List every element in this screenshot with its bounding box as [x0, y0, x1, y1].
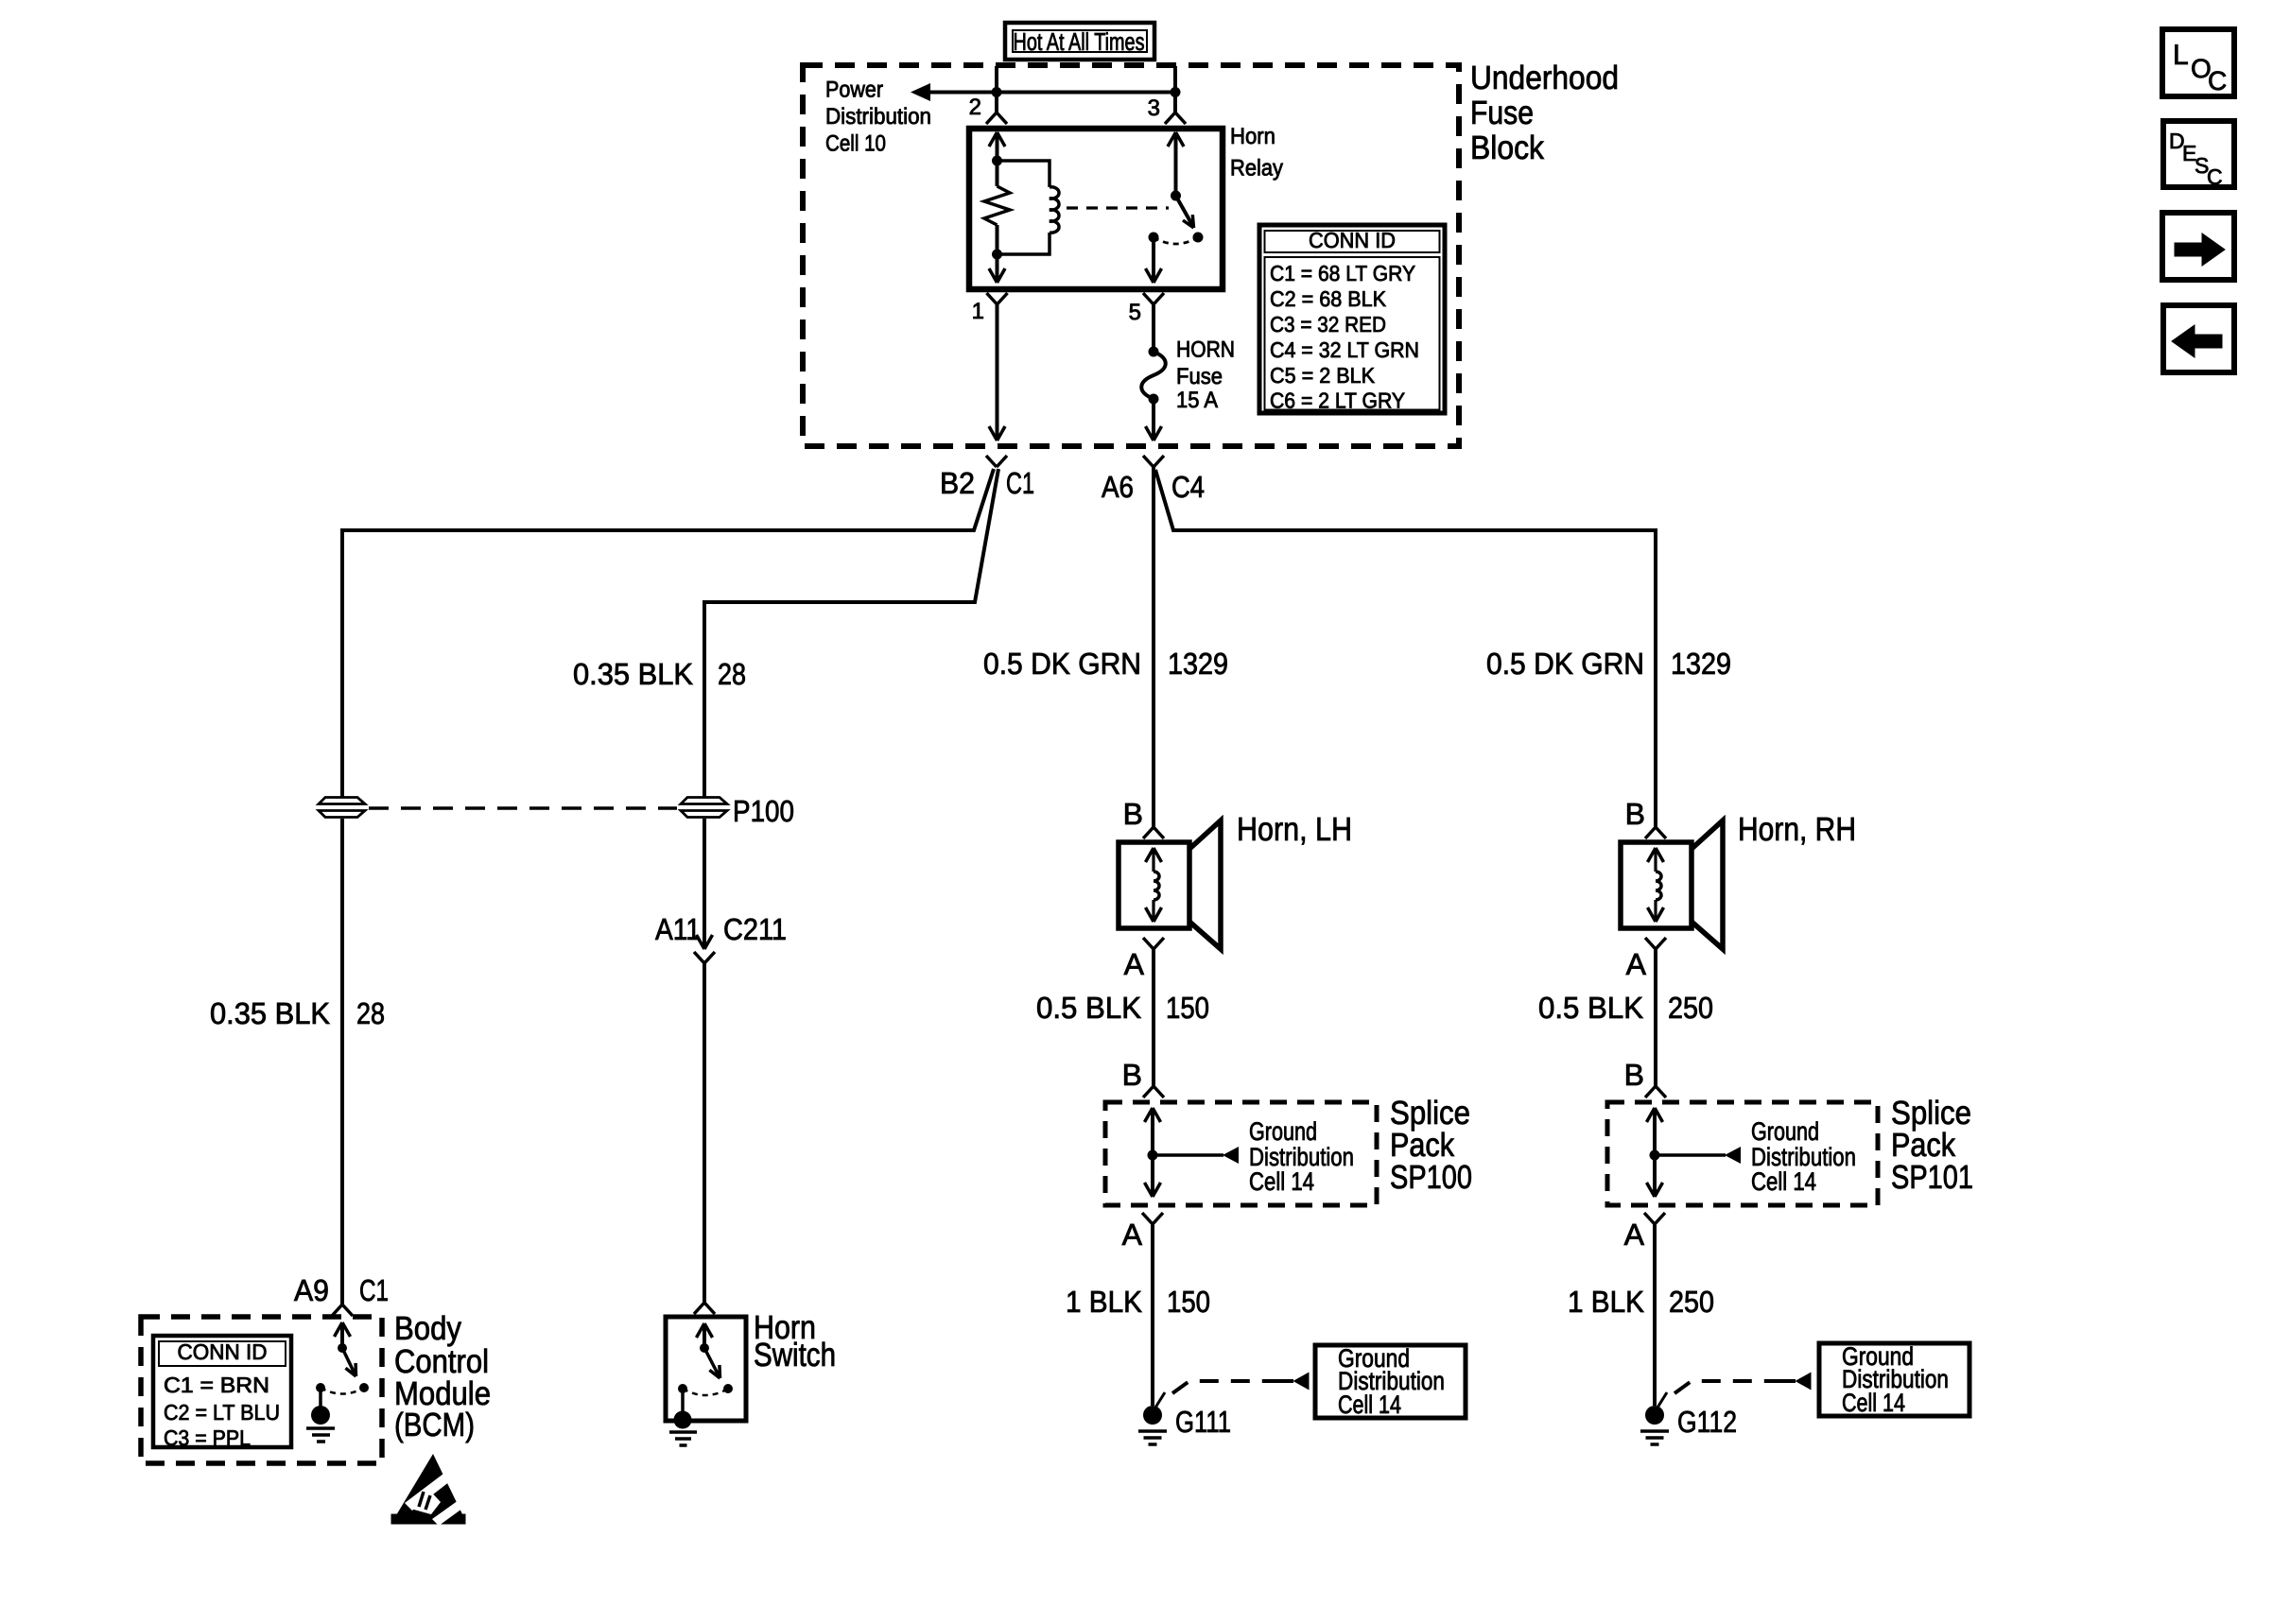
- inline connector on BCM wire (P100 pair): [321, 797, 364, 818]
- wire C211 to horn switch: [703, 963, 706, 1303]
- svg-text:Distribution: Distribution: [825, 104, 931, 130]
- splice SP100 internal wire: [1145, 1108, 1161, 1122]
- ESD sensitive device symbol: [391, 1454, 470, 1526]
- svg-text:Horn, RH: Horn, RH: [1738, 811, 1856, 848]
- svg-text:G112: G112: [1677, 1405, 1737, 1439]
- horn RH coil: [1648, 848, 1664, 862]
- horn switch fork terminal: [694, 1303, 715, 1314]
- svg-text:0.35 BLK: 0.35 BLK: [210, 996, 330, 1030]
- horn switch ground-side contact dot: [678, 1384, 687, 1393]
- svg-text:Horn, LH: Horn, LH: [1237, 811, 1352, 848]
- svg-text:5: 5: [1129, 300, 1141, 325]
- svg-text:B: B: [1123, 797, 1143, 831]
- terminal fork pin 5: [1143, 293, 1164, 304]
- CONN ID table BCM: [153, 1336, 291, 1447]
- svg-text:Switch: Switch: [754, 1337, 836, 1373]
- relay switch pivot dot: [1171, 191, 1181, 201]
- svg-text:1329: 1329: [1168, 647, 1228, 681]
- svg-text:Power: Power: [825, 78, 883, 103]
- BCM switch dashed travel arc: [321, 1388, 364, 1394]
- svg-text:28: 28: [356, 996, 385, 1030]
- splice SP101 internal wire: [1647, 1108, 1663, 1122]
- svg-text:0.35 BLK: 0.35 BLK: [573, 657, 693, 691]
- horn LH terminal fork A: [1143, 938, 1164, 949]
- svg-text:Cell 10: Cell 10: [825, 131, 886, 157]
- svg-text:0.5 BLK: 0.5 BLK: [1538, 991, 1643, 1025]
- svg-text:0.5 DK GRN: 0.5 DK GRN: [983, 647, 1141, 681]
- wire SP101 to ground G112: [1653, 1224, 1657, 1406]
- svg-text:Cell 14: Cell 14: [1751, 1167, 1816, 1196]
- svg-text:A: A: [1124, 947, 1145, 981]
- svg-text:0.5 DK GRN: 0.5 DK GRN: [1486, 647, 1644, 681]
- wire A6/C4 to Horn LH: [1152, 467, 1155, 827]
- wire horn-switch branch below connector: [703, 819, 706, 947]
- ground G111: [1143, 1406, 1162, 1425]
- svg-text:C211: C211: [723, 912, 787, 946]
- splice SP100 junction dot: [1148, 1150, 1158, 1161]
- reference box Ground Distribution Cell 14 (G111): [1315, 1345, 1466, 1418]
- svg-text:B: B: [1122, 1058, 1142, 1092]
- horn switch box: [666, 1317, 746, 1421]
- svg-text:Relay: Relay: [1230, 156, 1283, 181]
- wire B2/C1 to horn switch branch: [704, 469, 998, 797]
- wire horn RH to splice pack SP101: [1654, 949, 1657, 1086]
- ground G112: [1645, 1406, 1664, 1425]
- svg-text:C5 = 2 BLK: C5 = 2 BLK: [1270, 363, 1376, 388]
- wire fuse block feed to relay pin 2: [995, 66, 998, 112]
- wire relay pin 5 to HORN fuse: [1152, 304, 1155, 351]
- svg-text:Fuse: Fuse: [1470, 95, 1534, 131]
- svg-text:P100: P100: [733, 794, 794, 828]
- wire A6/C4 to Horn RH branch: [1155, 470, 1656, 827]
- relay coil-side wire pin 2 entering: [989, 132, 1005, 147]
- horn LH body box: [1119, 842, 1189, 928]
- svg-text:A: A: [1626, 947, 1647, 981]
- reference box Ground Distribution Cell 14 (G112): [1819, 1343, 1969, 1416]
- connector fork A6/C4: [1143, 456, 1164, 467]
- svg-text:L: L: [2173, 40, 2189, 71]
- svg-text:1 BLK: 1 BLK: [1568, 1285, 1644, 1319]
- wire BCM branch below connector: [340, 819, 344, 1304]
- svg-text:0.5 BLK: 0.5 BLK: [1036, 991, 1141, 1025]
- svg-text:HORN: HORN: [1176, 337, 1235, 363]
- svg-text:A: A: [1624, 1218, 1645, 1252]
- splice fork A (SP100): [1142, 1213, 1163, 1224]
- junction dot pin 3 wire / power feed: [1171, 87, 1181, 97]
- svg-text:150: 150: [1166, 991, 1209, 1025]
- BCM switch contact dot: [359, 1383, 369, 1392]
- wire fuse block feed to relay pin 3: [1173, 66, 1177, 112]
- horn switch ground: [674, 1411, 692, 1429]
- BCM dashed box: [141, 1317, 382, 1463]
- svg-text:Cell 14: Cell 14: [1842, 1389, 1905, 1417]
- svg-text:C: C: [2208, 66, 2227, 95]
- terminal fork pin 1: [987, 293, 1008, 304]
- horn LH speaker trapezoid: [1189, 821, 1221, 949]
- dashed link between P100 connector halves: [369, 806, 677, 810]
- BCM internal ground: [311, 1406, 330, 1425]
- svg-text:A9: A9: [294, 1273, 329, 1307]
- junction dot coil bottom: [992, 250, 1002, 260]
- relay switch arm: [1176, 196, 1193, 225]
- svg-text:CONN ID: CONN ID: [178, 1339, 268, 1364]
- wire coil to relay pin 1: [996, 254, 999, 281]
- horn switch input wire: [697, 1323, 713, 1338]
- svg-text:SP100: SP100: [1390, 1159, 1472, 1196]
- svg-text:C1 = 68 LT GRY: C1 = 68 LT GRY: [1270, 261, 1415, 285]
- svg-text:C6 = 2 LT GRY: C6 = 2 LT GRY: [1270, 389, 1405, 413]
- svg-text:G111: G111: [1175, 1405, 1231, 1439]
- svg-text:C2 = 68 BLK: C2 = 68 BLK: [1270, 286, 1387, 311]
- BCM internal ground contact dot: [316, 1383, 325, 1392]
- svg-text:A: A: [1122, 1218, 1143, 1252]
- svg-text:SP101: SP101: [1891, 1159, 1973, 1196]
- connector fork A9/C1 (BCM): [332, 1304, 353, 1316]
- relay box Horn Relay: [969, 129, 1223, 289]
- svg-text:3: 3: [1148, 95, 1160, 121]
- splice fork B (SP101): [1645, 1086, 1666, 1097]
- splice fork A (SP101): [1644, 1213, 1665, 1224]
- svg-text:C3 = 32 RED: C3 = 32 RED: [1270, 312, 1386, 337]
- svg-text:B2: B2: [940, 466, 975, 500]
- svg-text:Hot At All Times: Hot At All Times: [1014, 27, 1145, 56]
- svg-text:Body: Body: [394, 1310, 461, 1347]
- icon back arrow: [2163, 305, 2234, 372]
- relay switch common wire pin 3: [1168, 132, 1184, 147]
- resistor (relay suppression): [996, 161, 999, 186]
- svg-text:2: 2: [969, 95, 981, 120]
- horn switch arm: [704, 1348, 719, 1375]
- splice SP101 ground distribution stub: [1655, 1153, 1726, 1157]
- terminal fork pin 3: [1165, 112, 1186, 124]
- svg-text:C4: C4: [1171, 470, 1205, 504]
- svg-text:Fuse: Fuse: [1176, 364, 1223, 389]
- wire horn LH to splice pack SP100: [1152, 949, 1155, 1086]
- wire B2/C1 to BCM branch (left horizontal): [342, 469, 994, 797]
- svg-text:(BCM): (BCM): [394, 1407, 475, 1443]
- wire SP100 to ground G111: [1151, 1224, 1154, 1406]
- svg-text:1: 1: [972, 299, 984, 324]
- horn RH speaker trapezoid: [1692, 821, 1723, 949]
- splice pack SP101 dashed box: [1607, 1102, 1878, 1205]
- svg-text:Ground: Ground: [1751, 1117, 1819, 1146]
- svg-text:Ground: Ground: [1249, 1117, 1317, 1146]
- dashed reference to Ground Distribution Cell 14 (G111): [1172, 1381, 1276, 1393]
- splice pack SP100 dashed box: [1105, 1102, 1377, 1205]
- svg-text:A11: A11: [655, 912, 701, 946]
- splice fork B (SP100): [1143, 1086, 1164, 1097]
- wire contact to relay pin 5: [1152, 237, 1155, 281]
- dashed reference to Ground Distribution Cell 14 (G112): [1674, 1381, 1778, 1393]
- svg-text:Cell 14: Cell 14: [1338, 1391, 1401, 1419]
- terminal fork pin 2: [986, 112, 1007, 124]
- BCM horn switch input wire: [335, 1322, 351, 1337]
- horn switch contact dot: [723, 1384, 733, 1393]
- wire to Power Distribution Cell 10 (left arrow): [911, 83, 930, 101]
- svg-text:250: 250: [1669, 1285, 1714, 1319]
- relay coil L1: [998, 161, 1050, 187]
- BCM switch arm: [342, 1348, 355, 1373]
- relay switch fixed contact dot: [1149, 233, 1159, 243]
- svg-text:C1: C1: [359, 1273, 389, 1307]
- relay switch dashed travel arc: [1154, 237, 1198, 244]
- svg-text:Underhood: Underhood: [1470, 60, 1619, 96]
- connector A11/C211 on horn switch wire: [697, 935, 713, 949]
- HORN fuse 15 A element: [1149, 347, 1159, 357]
- splice SP100 ground distribution stub: [1153, 1153, 1223, 1157]
- svg-text:150: 150: [1167, 1285, 1210, 1319]
- svg-text:Block: Block: [1470, 130, 1544, 166]
- label box 'Hot At All Times': [1005, 23, 1154, 60]
- splice SP101 junction dot: [1650, 1150, 1660, 1161]
- junction dot coil top: [992, 156, 1002, 166]
- svg-text:C1: C1: [1006, 466, 1034, 500]
- horn LH terminal fork B: [1143, 827, 1164, 838]
- relay actuation dashed link: [1067, 206, 1169, 209]
- horn RH terminal fork B: [1645, 827, 1666, 838]
- svg-text:CONN ID: CONN ID: [1309, 228, 1396, 252]
- relay switch moving contact dot: [1193, 233, 1204, 243]
- horn switch pivot dot: [700, 1343, 709, 1353]
- horn LH coil: [1146, 848, 1162, 862]
- inline connector P100: [683, 797, 726, 818]
- CONN ID table underhood fuse block: [1259, 225, 1445, 413]
- svg-text:Horn: Horn: [1230, 124, 1275, 149]
- wire HORN fuse to connector C4 terminal A6: [1152, 399, 1155, 441]
- svg-text:C1 = BRN: C1 = BRN: [164, 1373, 269, 1397]
- junction dot pin 2 wire / power feed: [992, 87, 1002, 97]
- horn RH body box: [1621, 842, 1692, 928]
- svg-text:250: 250: [1668, 991, 1713, 1025]
- wire relay pin 1 to connector C1 terminal B2: [996, 304, 999, 441]
- svg-text:C4 = 32 LT GRN: C4 = 32 LT GRN: [1270, 337, 1419, 362]
- svg-text:1329: 1329: [1671, 647, 1731, 681]
- horn switch dashed travel arc: [683, 1389, 728, 1395]
- svg-text:1 BLK: 1 BLK: [1066, 1285, 1142, 1319]
- svg-text:B: B: [1624, 1058, 1644, 1092]
- icon DESC: [2163, 121, 2234, 187]
- svg-text:B: B: [1625, 797, 1645, 831]
- svg-text:Cell 14: Cell 14: [1249, 1167, 1314, 1196]
- svg-text:15 A: 15 A: [1176, 388, 1218, 413]
- svg-text:C2 = LT BLU: C2 = LT BLU: [164, 1400, 280, 1425]
- svg-text:28: 28: [718, 657, 746, 691]
- icon forward arrow: [2162, 213, 2234, 280]
- horn RH terminal fork A: [1645, 938, 1666, 949]
- svg-text:A6: A6: [1102, 470, 1134, 504]
- Underhood Fuse Block dashed boundary: [803, 65, 1459, 446]
- connector fork B2/C1: [986, 456, 1007, 467]
- BCM switch pivot dot: [338, 1343, 347, 1353]
- svg-text:C3 = PPL: C3 = PPL: [164, 1425, 251, 1450]
- icon LOC: [2162, 29, 2234, 96]
- svg-text:C: C: [2207, 164, 2223, 189]
